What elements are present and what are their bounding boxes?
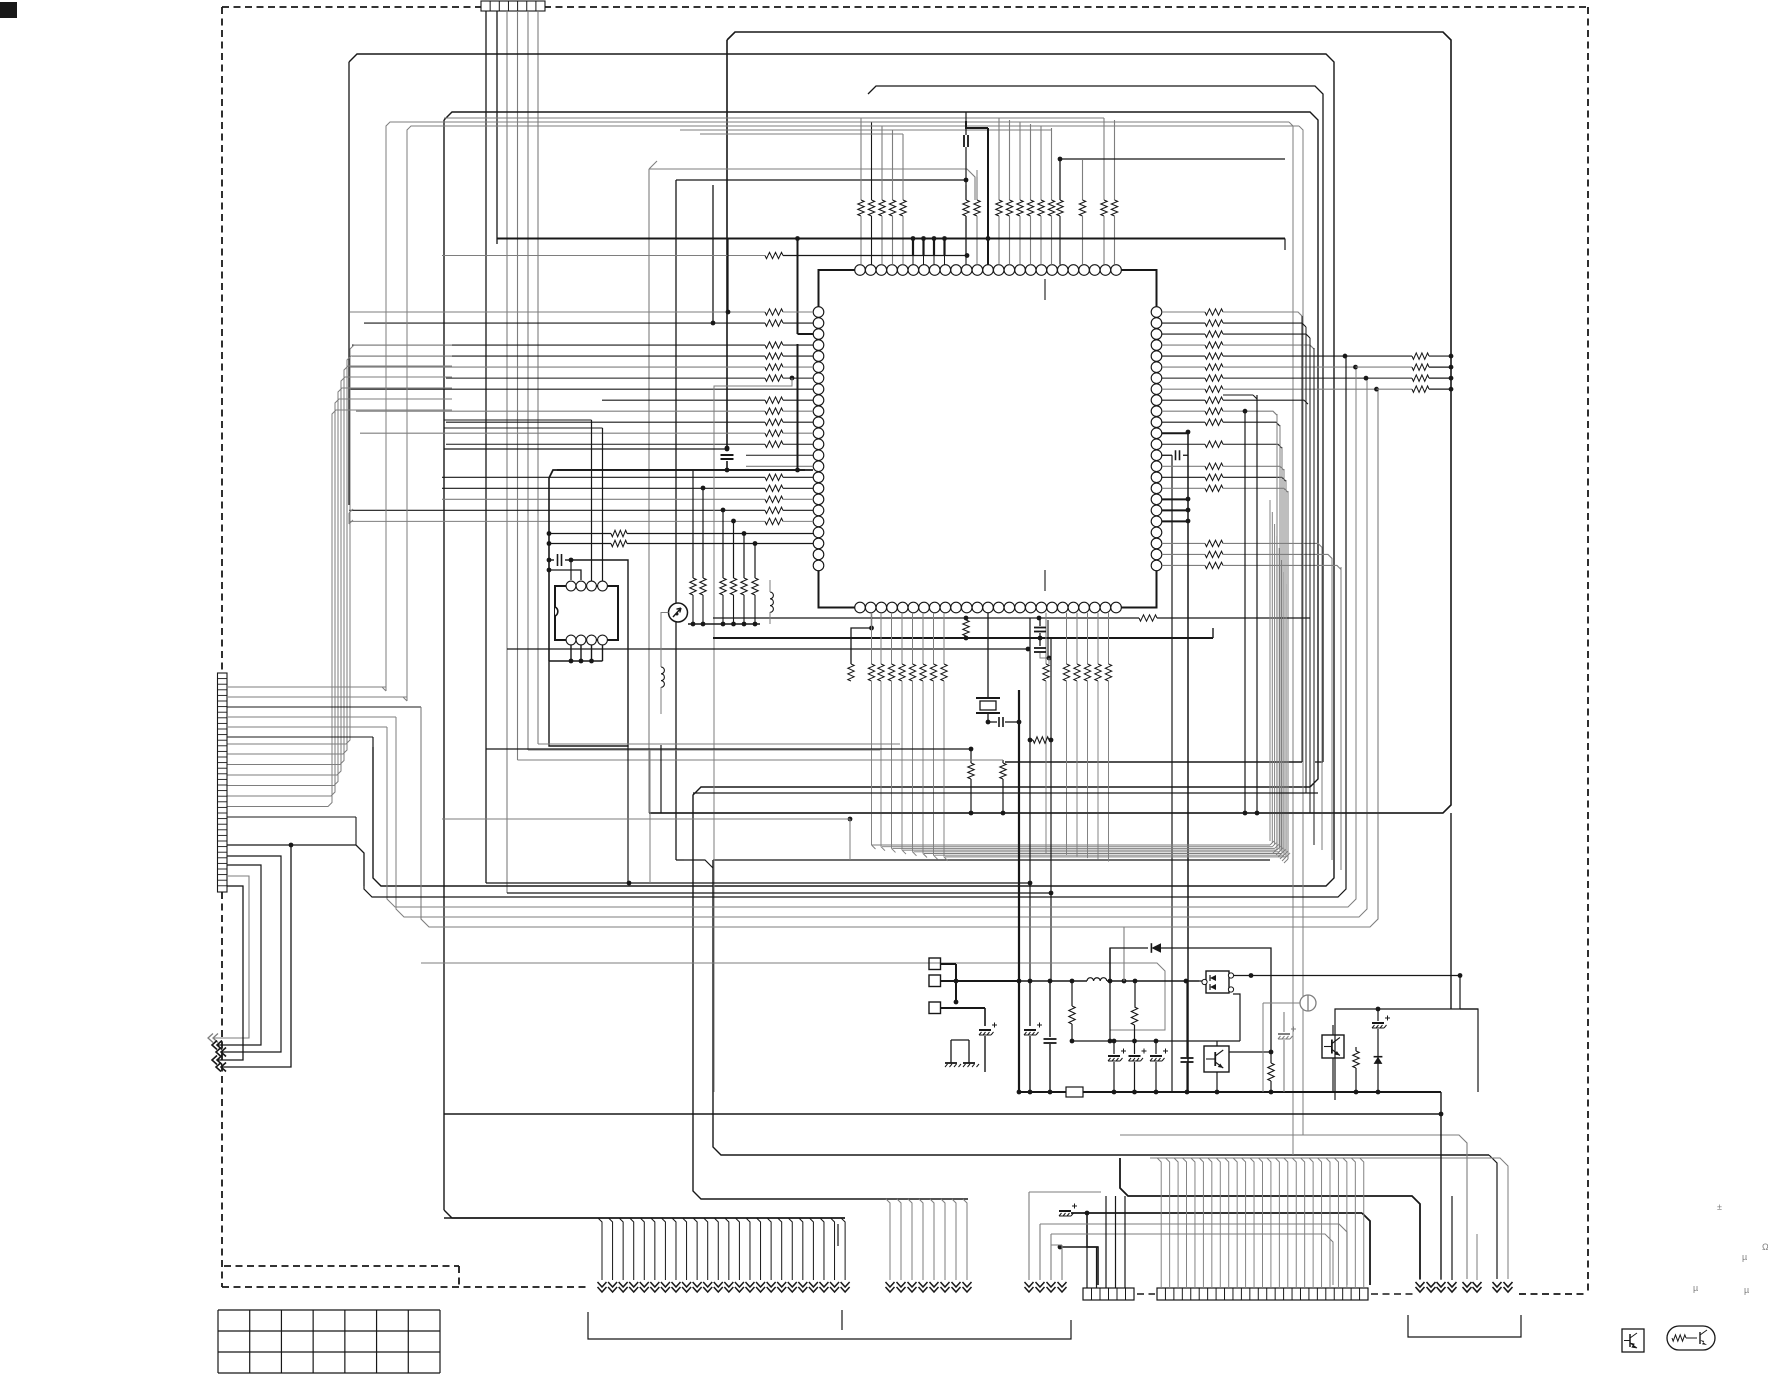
CN2 wire x396 bbox=[396, 380, 1367, 917]
pad P2 bbox=[929, 975, 941, 987]
wire y1041 bbox=[1072, 1040, 1240, 1042]
mid band bus bbox=[872, 844, 1271, 846]
node bus238 bbox=[795, 236, 800, 241]
bus y618 bbox=[713, 617, 1139, 619]
bus loop E bbox=[649, 161, 657, 169]
gray y1155b bbox=[1150, 1158, 1508, 1279]
right bend bundle upper bbox=[1301, 316, 1303, 762]
U path 5 bbox=[222, 845, 291, 1067]
resistor bank below-left of U1 feeders bbox=[701, 486, 706, 491]
label bracket 2 bbox=[1408, 1315, 1521, 1337]
capacitor C9 pol bbox=[1108, 1055, 1120, 1057]
capacitor C1 bbox=[721, 454, 734, 456]
capacitor C13 bbox=[1372, 1022, 1384, 1024]
bus loop C bbox=[868, 86, 1323, 260]
wire opto in bbox=[1199, 980, 1202, 982]
pad P3 bbox=[929, 1002, 941, 1014]
harness arrows right C bbox=[1493, 1287, 1502, 1292]
bus y238 corner bbox=[1284, 239, 1286, 251]
CN2 wire x421 down bbox=[421, 390, 1378, 927]
transistor Q2 bbox=[1322, 1035, 1344, 1058]
feeder y118 bbox=[444, 117, 1104, 119]
trunk x713 head bbox=[684, 860, 713, 868]
wire y750b bbox=[528, 749, 880, 751]
dashed board boundary right bbox=[1587, 7, 1589, 1294]
wire y560 to right bbox=[549, 560, 628, 746]
node right stubs bbox=[1186, 430, 1191, 435]
inductor L3 bbox=[1087, 978, 1107, 981]
pin row U1 top bbox=[855, 265, 866, 276]
connector CN2 stub wires bbox=[227, 686, 386, 688]
resistor fan above U1 bbox=[860, 118, 862, 200]
U path 3 bbox=[214, 876, 249, 1038]
wire y744b bbox=[538, 743, 900, 745]
resistor R y740 bbox=[1028, 738, 1033, 743]
CN4 drop wires bbox=[1157, 1158, 1161, 1288]
wire y819 bbox=[848, 817, 853, 822]
bus loop C right lower bbox=[1322, 260, 1324, 762]
wire x985 branch bbox=[984, 1008, 986, 1026]
harness arrows bottom group3 bbox=[1028, 1192, 1030, 1280]
crystal wires bbox=[987, 613, 989, 699]
svg-text:Ω: Ω bbox=[1762, 1242, 1768, 1252]
U1 index mark top bbox=[1044, 279, 1046, 300]
bus loop B inner stub bbox=[348, 62, 350, 505]
capacitor C10 pol bbox=[1129, 1055, 1141, 1057]
node y159 bbox=[1058, 157, 1063, 162]
block outline bbox=[1335, 1009, 1478, 1100]
harness arrows bottom group2 bbox=[886, 1199, 890, 1280]
diode D2 bbox=[1374, 1057, 1383, 1064]
left pin wires with resistors bbox=[350, 311, 765, 313]
node F bbox=[964, 178, 969, 183]
bottom resistors right group bbox=[1045, 613, 1047, 664]
resistor R x971 bbox=[970, 749, 972, 763]
capacitor C3 bbox=[988, 721, 997, 723]
bus y638 thick bbox=[713, 637, 1213, 639]
capacitor C12 bbox=[1181, 1057, 1194, 1059]
diode D1 bbox=[1151, 943, 1161, 953]
harness arrows right A bbox=[1419, 1279, 1421, 1280]
stub x1213 y638 bbox=[1212, 628, 1214, 638]
Q1 right wire bbox=[1229, 1051, 1271, 1053]
trunk x1441 lower bbox=[1440, 1092, 1442, 1279]
bus y1114 bbox=[444, 1113, 1441, 1115]
wire y793 bbox=[693, 792, 1318, 794]
gray y1224 bbox=[1040, 1224, 1347, 1285]
dashed board boundary left upper bbox=[221, 7, 223, 680]
wire y533 bbox=[547, 531, 552, 536]
node C4 bbox=[725, 447, 730, 452]
wire CN1-3 bbox=[506, 11, 508, 893]
svg-text:µ: µ bbox=[1744, 1285, 1749, 1295]
bus loop D bbox=[444, 112, 1318, 1199]
node left k1 bbox=[711, 321, 716, 326]
optocoupler U3 bbox=[1206, 971, 1229, 993]
tick mark 1 bbox=[837, 1224, 839, 1246]
wire CN1-2 bbox=[496, 11, 498, 244]
node left k6 branch bbox=[790, 376, 795, 381]
harness arrows right B bbox=[1463, 1287, 1472, 1292]
bus loop D left tail bbox=[443, 120, 445, 1210]
connector CN4 bbox=[1157, 1288, 1368, 1300]
trunk x1019 thick bbox=[1018, 690, 1020, 1092]
dashed board boundary notch vertical bbox=[458, 1266, 460, 1287]
bus y470 thick bbox=[549, 470, 805, 478]
wire x966 resistor bbox=[965, 180, 967, 200]
right pin wires with resistors bbox=[1162, 311, 1205, 313]
op-amp U1 body outline bbox=[819, 270, 1157, 608]
D1 to x1271 bbox=[1161, 948, 1271, 1052]
meter wire bbox=[661, 613, 669, 668]
wire y749 bbox=[486, 748, 971, 750]
gray riser x1341 bbox=[1340, 567, 1342, 870]
power rail y1092 bbox=[1019, 1091, 1066, 1093]
band risers bbox=[1269, 500, 1271, 841]
CN2 wire x373 bbox=[372, 737, 374, 747]
trunk x549 bbox=[548, 478, 550, 661]
resistor R x1003 bbox=[1002, 760, 1004, 763]
bus y649 bbox=[507, 648, 1028, 650]
legend pill bbox=[1667, 1326, 1715, 1350]
trunk x1257 bbox=[1256, 395, 1258, 813]
svg-text:±: ± bbox=[1717, 1202, 1722, 1212]
thick y762 bbox=[1005, 761, 1302, 763]
stub to pin3 bbox=[797, 238, 799, 334]
dashed board boundary bottom left bbox=[222, 1286, 588, 1288]
mic M1 bbox=[1300, 995, 1316, 1011]
trunk x650 gray bbox=[649, 750, 651, 883]
right bend bundle lower bbox=[1276, 414, 1278, 849]
trunk x364 down bbox=[364, 358, 1346, 897]
wire CN1-1 bbox=[485, 11, 487, 883]
U2 top pin risers bbox=[591, 420, 593, 581]
node left k0 bbox=[726, 310, 731, 315]
U path 1 bbox=[222, 856, 281, 1052]
trunk x629 bbox=[627, 746, 629, 883]
transistor Q1 bbox=[1204, 1046, 1229, 1072]
bottom pin drops left bbox=[871, 613, 873, 664]
harness arrows bottom group1 bbox=[444, 1217, 845, 1219]
U2 bottom pin drops bbox=[570, 645, 572, 661]
opto right loop bbox=[1233, 994, 1240, 1041]
dark trunk x676 bbox=[675, 180, 677, 860]
inductor L1 bbox=[661, 667, 664, 687]
wire y449 bbox=[444, 448, 727, 450]
dark trunk x713 upper bbox=[712, 185, 714, 323]
clock stub head bbox=[966, 121, 988, 128]
bus y813 segment bbox=[649, 812, 1443, 814]
harness arrows left bbox=[208, 1034, 213, 1043]
svg-text:µ: µ bbox=[1693, 1283, 1698, 1293]
bottom resistors left group bbox=[868, 664, 874, 681]
dashed board boundary bottom notch upper bbox=[224, 1265, 459, 1267]
wire CN1-6 bbox=[537, 11, 539, 744]
thick y1196 bbox=[1120, 1158, 1420, 1279]
inductor L1 tail bbox=[660, 687, 662, 714]
wire CN1-4 bbox=[517, 11, 519, 760]
rail dots bbox=[1017, 1090, 1022, 1095]
node y570 bbox=[547, 568, 552, 573]
gray riser x1332 bbox=[1331, 558, 1333, 860]
caps at x1040 bbox=[1039, 618, 1041, 626]
wire y159 bbox=[1060, 158, 1285, 160]
pin row U1 bottom bbox=[855, 602, 866, 613]
diode D1 line bbox=[1110, 948, 1148, 981]
resistor bank bus bbox=[688, 623, 760, 625]
x1124 riser bbox=[1123, 927, 1125, 981]
x1087 jog bbox=[1087, 1213, 1098, 1285]
wire pad1 down bbox=[955, 964, 957, 1002]
wire x1030 bbox=[1029, 618, 1031, 883]
feeder y122 bbox=[386, 122, 1289, 130]
wire x571 drop bbox=[570, 560, 572, 580]
wire y976 branch bbox=[1458, 973, 1463, 978]
ground G2 bbox=[968, 1058, 970, 1063]
op-amp U2 body bbox=[555, 586, 618, 640]
trunk x1050 bbox=[1049, 981, 1051, 1037]
bus y1155 tail bbox=[1489, 1155, 1497, 1279]
dark loop F top bbox=[676, 179, 966, 181]
bus loop C bottom bbox=[1315, 761, 1323, 763]
CN2 riser x386 bbox=[382, 687, 386, 691]
gray risers x349 bbox=[349, 509, 353, 513]
node A cap junction bbox=[725, 446, 730, 451]
CN2 wire x387 bbox=[387, 369, 1356, 907]
bus loop A left bbox=[726, 40, 728, 448]
feeder y134 bbox=[700, 133, 903, 135]
pin column U1 left bbox=[813, 307, 824, 318]
junction y628 bbox=[869, 626, 874, 631]
Q1 top wire bbox=[1216, 1041, 1218, 1046]
capacitor C5 bbox=[547, 558, 552, 563]
feeder y126 bbox=[407, 126, 1299, 134]
dashed board boundary top bbox=[222, 6, 1588, 8]
trunk x1030 bbox=[1029, 981, 1031, 1026]
capacitor C15 bbox=[1059, 1210, 1071, 1212]
C6 tail bbox=[984, 1036, 986, 1072]
capacitor C11 pol bbox=[1150, 1055, 1162, 1057]
resistor R x1134 bbox=[1134, 981, 1136, 1007]
wire y255 resistor bbox=[442, 255, 765, 257]
capacitor C14 pol bbox=[1278, 1033, 1290, 1035]
thick horiz y860 bbox=[713, 859, 1270, 861]
resistor R x1072 bbox=[1071, 981, 1073, 1006]
gray riser x1322 bbox=[1321, 547, 1323, 850]
bus loop D bottom corner bbox=[444, 1210, 845, 1218]
pin row U2 bottom bbox=[566, 635, 576, 645]
capacitor C8 bbox=[1044, 1038, 1057, 1040]
U2 ground bus bbox=[549, 660, 603, 662]
node y470 bbox=[795, 468, 800, 473]
label bracket 1 bbox=[588, 1312, 1071, 1339]
feeder y130 bbox=[680, 129, 1052, 131]
border corner mark bbox=[0, 2, 17, 18]
capacitor C7 bbox=[1024, 1029, 1036, 1031]
resistor R x1271 bbox=[1270, 1052, 1272, 1063]
wire A left to bus bbox=[726, 461, 728, 470]
series resistor y618 bbox=[1139, 615, 1157, 621]
CN2 wire y845 bbox=[289, 843, 294, 848]
trunk x661b bbox=[660, 745, 662, 813]
wire y420 to U2 bbox=[444, 419, 592, 421]
revision table bbox=[218, 1309, 440, 1311]
pin row U2 top bbox=[566, 581, 576, 591]
bus loop B bbox=[349, 54, 1334, 886]
gray loop top bbox=[649, 169, 975, 200]
dashed board boundary left lower bbox=[221, 892, 223, 1287]
clock stub x988 bbox=[987, 128, 989, 265]
resistor bank R bank bbox=[690, 578, 696, 595]
bus loop A top bbox=[649, 32, 1451, 813]
wire grounds top bbox=[951, 1039, 969, 1041]
connector CN2 body bbox=[218, 673, 228, 892]
Q2 wires bbox=[1332, 1058, 1334, 1092]
resistor row to bus A bbox=[1343, 354, 1348, 359]
wire y976 out bbox=[1234, 975, 1461, 977]
bus loop G via x713 bbox=[676, 859, 684, 861]
gray y1231 bbox=[1029, 1191, 1101, 1193]
dashed link strip1 strip2 bbox=[1137, 1293, 1155, 1295]
bus y893 bbox=[507, 892, 1051, 894]
CN2 riser x407 bbox=[403, 697, 407, 701]
connector CN3 bbox=[1083, 1288, 1134, 1300]
wire x977 up bbox=[976, 170, 978, 177]
rail y981 cont bbox=[1107, 980, 1199, 982]
resistor R under pin bbox=[963, 620, 969, 636]
trunk x713 lower bbox=[713, 860, 1489, 1155]
crystal body bbox=[980, 701, 996, 710]
bus y238 thick bbox=[497, 238, 1285, 240]
bus y1135 bbox=[1120, 1135, 1467, 1279]
thick y1213 bbox=[1085, 1211, 1090, 1216]
resistor R x1356 bbox=[1355, 1047, 1357, 1051]
dashed link strip2 to arrows bbox=[1371, 1293, 1413, 1295]
capacitor C6 bbox=[979, 1029, 991, 1031]
wire y543 bbox=[547, 541, 552, 546]
trunk x1188 bbox=[1187, 432, 1189, 1092]
trunk x1245 bbox=[1244, 411, 1246, 813]
wire y760 bbox=[518, 759, 1004, 761]
wire y428 to U2 bbox=[444, 427, 603, 429]
U path 2 bbox=[218, 865, 261, 1045]
CN3 drop wires bbox=[1086, 1247, 1088, 1288]
capacitor C2 bbox=[963, 135, 965, 147]
legend transistor box bbox=[1622, 1329, 1644, 1352]
test point TP1 meter bbox=[669, 603, 688, 622]
connector CN1 top bbox=[481, 1, 545, 11]
dashed board boundary bottom right bbox=[1519, 1293, 1588, 1295]
trunk x797 mid bbox=[797, 344, 799, 470]
node y813 bbox=[969, 811, 974, 816]
wire x1049 down bbox=[1048, 658, 1050, 664]
bus y883 bbox=[627, 881, 632, 886]
inductor L2 bbox=[770, 592, 773, 612]
pin column U1 right bbox=[1151, 307, 1162, 318]
U1 index mark bottom bbox=[1044, 570, 1046, 591]
left riser bundle bbox=[227, 345, 452, 744]
tick mark 3 bbox=[1047, 620, 1049, 656]
wire x1051 upper bbox=[1050, 638, 1052, 893]
wire C2 up bbox=[965, 112, 967, 135]
gray y963 bbox=[421, 963, 1165, 1030]
U path 4 bbox=[218, 886, 243, 1060]
power rail y981 bbox=[1019, 980, 1087, 982]
pad P1 bbox=[929, 958, 941, 970]
wire CN1-5 bbox=[527, 11, 529, 750]
ground G1 bbox=[950, 1058, 952, 1063]
gray trunk x649 bbox=[648, 169, 650, 813]
svg-text:µ: µ bbox=[1742, 1252, 1747, 1262]
tick mark 2 bbox=[841, 1310, 843, 1330]
stub pins y238 bbox=[912, 239, 914, 256]
